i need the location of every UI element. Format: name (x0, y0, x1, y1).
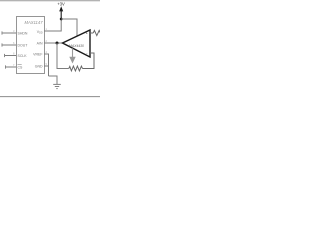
node SHDN terminal tick (1, 31, 3, 34)
ground symbol (53, 83, 61, 85)
svg-text:DOUT: DOUT (18, 43, 29, 47)
svg-text:CS: CS (18, 65, 24, 69)
svg-text:+: + (86, 32, 88, 36)
op-amp V- pin wire (72, 48, 74, 57)
svg-text:GND: GND (35, 64, 43, 68)
wire plus input (90, 32, 93, 34)
svg-text:MAX1147: MAX1147 (24, 20, 43, 25)
svg-text:VREF: VREF (33, 52, 42, 56)
svg-text:MAX4430: MAX4430 (69, 44, 84, 48)
wire SHDN pin stub (2, 32, 16, 34)
resistor R2 feedback (69, 66, 83, 71)
bottom border rule (0, 96, 100, 98)
wire ground bus to ground symbol (49, 76, 58, 84)
+3V supply arrow (59, 6, 63, 11)
wire GND pin to ground bus (44, 65, 49, 67)
op-amp U2 triangle (63, 30, 91, 57)
ground arrow (V-) (69, 57, 75, 64)
wire CS pin stub (6, 66, 17, 68)
wire DOUT pin stub (2, 44, 16, 46)
wire +3V rail to op-amp V+ (61, 19, 77, 36)
resistor R1 input (clipped at edge) (93, 30, 100, 35)
node SCLK terminal tick (4, 54, 6, 57)
svg-text:+3V: +3V (57, 1, 65, 6)
svg-text:SCLK: SCLK (18, 54, 28, 58)
wire AIN to op-amp output (44, 42, 63, 44)
IC U1 MAX1147 box (17, 17, 45, 74)
wire minus input to feedback (83, 53, 95, 69)
node CS terminal tick (5, 65, 7, 68)
wire VREF to ground bus (44, 54, 49, 76)
svg-text:VDD: VDD (37, 30, 43, 35)
wire SCLK pin stub (5, 55, 17, 57)
top border rule (0, 0, 100, 2)
wire feedback to output node (57, 43, 69, 69)
wire VDD to +3V rail (44, 19, 61, 31)
svg-text:AIN: AIN (37, 41, 43, 45)
node +3V junction dot (60, 18, 63, 21)
svg-text:SHDN: SHDN (18, 31, 28, 35)
node output junction dot (56, 42, 59, 45)
node DOUT terminal tick (1, 43, 3, 46)
